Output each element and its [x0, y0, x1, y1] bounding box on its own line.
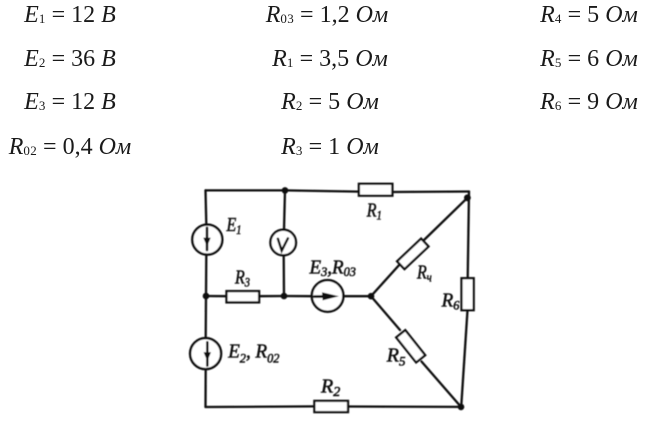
- source E2 circle: [190, 338, 221, 369]
- source E3 arrow: [314, 292, 339, 300]
- wire: bottom side from bottom-left to R2: [206, 405, 315, 408]
- wire: diagonal from R4 to mid node M: [371, 264, 401, 297]
- resistor R2: [314, 401, 348, 412]
- svg-text:R6: R6: [441, 290, 460, 312]
- resistor R3: [227, 291, 260, 302]
- wire: middle branch R3 to junction B: [259, 295, 284, 298]
- svg-text:R2: R2: [320, 376, 340, 401]
- wire: left side between E1 and node A: [205, 255, 208, 296]
- value label R2 = 5 Ohm: [281, 89, 379, 116]
- value label R6 = 9 Ohm: [540, 89, 638, 116]
- value label E3 = 12 V: [24, 89, 116, 116]
- wire: E3 source to mid node M: [344, 295, 371, 297]
- node M (mid star point): [368, 293, 375, 300]
- value label E2 = 36 V: [24, 46, 116, 73]
- value label R3 = 1 Ohm: [281, 134, 379, 161]
- wire: left side between node A and E2: [205, 296, 208, 338]
- node A (left, R3 branch): [203, 293, 210, 300]
- wire: left side upper (TL corner to E1): [204, 190, 207, 224]
- source E1 circle: [192, 225, 222, 255]
- wire: middle branch node A to R3: [206, 295, 227, 298]
- svg-text:R3: R3: [234, 266, 250, 290]
- voltmeter V circle: [270, 230, 296, 256]
- wire: diagonal from R5 to bottom-right node: [422, 362, 462, 407]
- value label R02 = 0,4 Ohm: [9, 134, 131, 161]
- node B (below voltmeter): [281, 293, 288, 300]
- value label R1 = 3,5 Ohm: [272, 46, 388, 73]
- wire: bottom side from R2 to bottom-right node: [348, 405, 461, 408]
- resistor R6: [462, 278, 474, 310]
- node top-right corner: [464, 194, 471, 201]
- wire: junction B to E3 source: [284, 295, 311, 298]
- voltmeter V letter: [278, 238, 288, 250]
- value label E1 = 12 V: [24, 2, 116, 29]
- value label R4 = 5 Ohm: [540, 2, 638, 29]
- svg-text:Rч: Rч: [416, 261, 432, 285]
- wire: voltmeter branch lower (V to junction B): [283, 256, 286, 297]
- svg-text:R1: R1: [366, 199, 382, 223]
- resistor R4: [397, 239, 428, 269]
- wire: voltmeter branch upper (top junction to V): [284, 190, 285, 229]
- node bottom-right corner: [458, 404, 465, 411]
- node junction top (voltmeter tap): [282, 187, 289, 194]
- wire: diagonal from mid node M to R5: [371, 296, 400, 330]
- wire: diagonal from top-right corner to R4: [424, 198, 468, 241]
- value label R03 = 1,2 Ohm: [266, 2, 388, 29]
- svg-text:E3,R03: E3,R03: [309, 257, 356, 279]
- resistor R1: [359, 184, 393, 196]
- svg-text:E1: E1: [226, 213, 242, 237]
- svg-text:R5: R5: [386, 345, 406, 369]
- wire: right side from top-right corner to R6: [468, 192, 469, 279]
- source E3 circle: [312, 280, 344, 312]
- wire: top side from top-left corner to R1: [206, 190, 360, 191]
- resistor R5: [396, 330, 425, 362]
- wire: right side from R6 to bottom-right node: [461, 310, 467, 407]
- wire: top side from R1 to top-right corner: [392, 190, 469, 193]
- source E2 arrow: [204, 342, 211, 365]
- wire: left side lower (E2 to bottom-left corner): [204, 370, 206, 407]
- source E1 arrow: [203, 228, 210, 250]
- value label R5 = 6 Ohm: [540, 46, 638, 73]
- svg-text:E2, R02: E2, R02: [227, 341, 280, 365]
